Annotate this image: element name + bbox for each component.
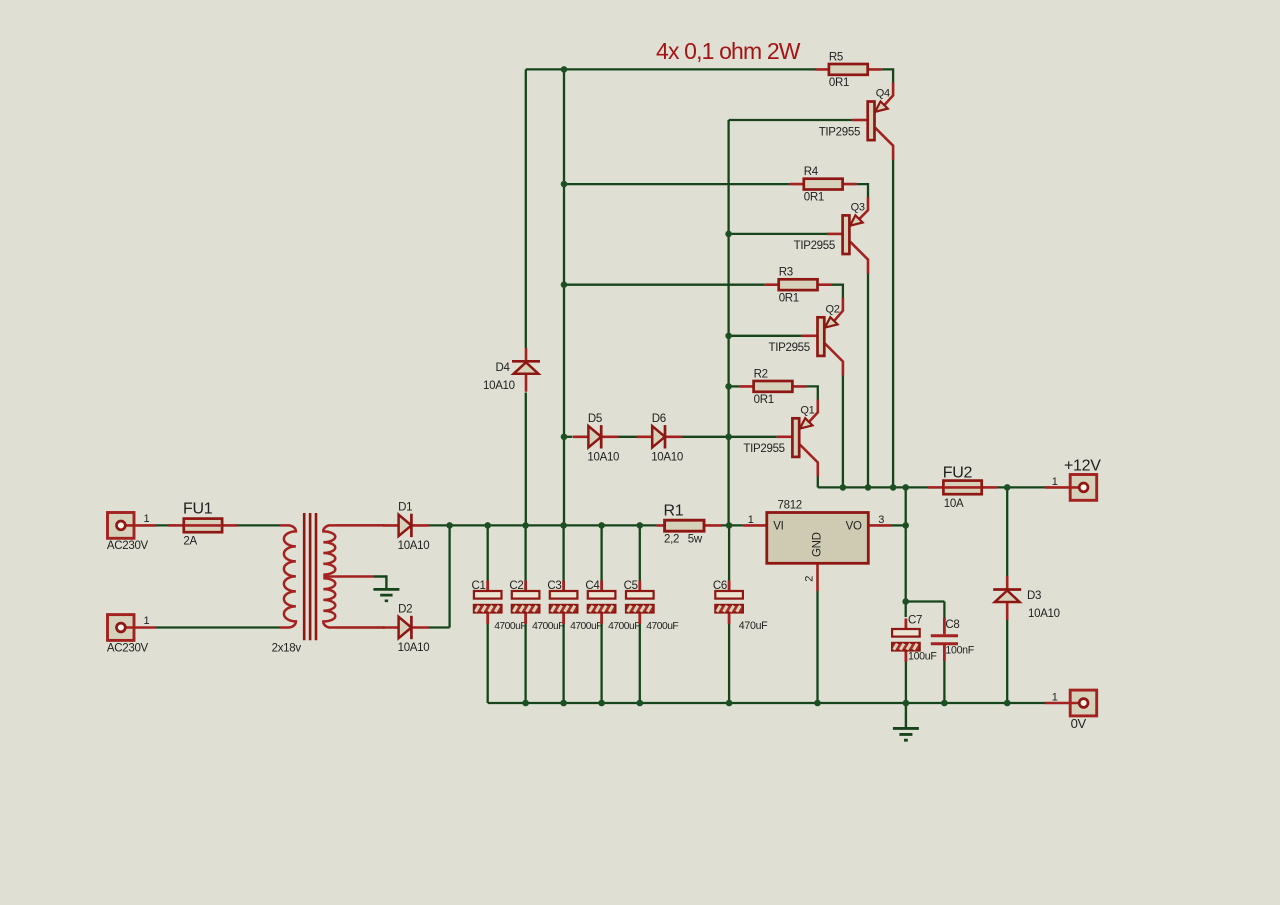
diode D6 10A10 xyxy=(637,425,683,448)
wire VO junction riser xyxy=(905,487,907,601)
resistor R5 0R1 xyxy=(815,64,882,75)
svg-text:C8: C8 xyxy=(945,619,959,631)
wire R3 row xyxy=(564,284,765,286)
svg-text:10A: 10A xyxy=(944,498,964,510)
svg-text:+12V: +12V xyxy=(1064,458,1101,475)
svg-text:VI: VI xyxy=(773,521,783,533)
wire AC line2 terminal to transformer xyxy=(156,626,280,628)
svg-text:1: 1 xyxy=(144,615,150,627)
wire C8 top drop xyxy=(943,602,945,619)
transistor Q1 TIP2955 xyxy=(777,418,818,476)
node +12V rail / Q3 xyxy=(865,484,872,491)
svg-text:10A10: 10A10 xyxy=(398,540,430,552)
svg-text:4700uF: 4700uF xyxy=(532,621,564,632)
wire R4 row xyxy=(564,183,790,185)
wire base bus vertical x=728.6 xyxy=(727,120,729,525)
svg-text:C2: C2 xyxy=(509,580,523,592)
wire AC line1 terminal to fuse xyxy=(156,524,177,526)
svg-text:R5: R5 xyxy=(829,51,843,63)
svg-text:10A10: 10A10 xyxy=(398,642,430,654)
node VO junction xyxy=(902,522,909,529)
svg-text:Q1: Q1 xyxy=(800,404,814,416)
svg-text:D2: D2 xyxy=(398,604,412,616)
node bus / C1 xyxy=(484,522,491,529)
wire C2 riser xyxy=(524,525,526,703)
svg-text:10A10: 10A10 xyxy=(587,451,619,463)
wire Q4 collector drop xyxy=(892,159,894,488)
svg-text:1: 1 xyxy=(144,513,150,525)
svg-text:R4: R4 xyxy=(804,166,819,178)
node 0V rail / C8 xyxy=(941,700,948,707)
node 0V rail / C3 xyxy=(560,700,567,707)
node input bus / R4 xyxy=(561,181,568,188)
diode D2 10A10 xyxy=(383,616,429,639)
svg-text:4700uF: 4700uF xyxy=(494,621,526,632)
wire C3 riser xyxy=(562,525,564,703)
svg-text:0R1: 0R1 xyxy=(829,77,849,89)
node 0V rail / C2 xyxy=(522,700,529,707)
node 0V rail / C5 xyxy=(637,700,644,707)
wire FU2 to terminal xyxy=(997,486,1050,488)
diode D1 10A10 xyxy=(383,514,429,537)
terminal +12V output xyxy=(1045,475,1097,501)
wire R2 to Q1 emitter corner xyxy=(806,386,817,400)
svg-text:GND: GND xyxy=(812,532,824,557)
svg-text:0R1: 0R1 xyxy=(754,394,774,406)
fuse FU1 2A xyxy=(168,519,238,533)
svg-text:C4: C4 xyxy=(585,580,600,592)
wire D6 to base bus xyxy=(681,436,777,438)
svg-text:AC230V: AC230V xyxy=(107,642,149,654)
ground (transformer centre tap) xyxy=(373,577,399,601)
regulator U1 7812 xyxy=(743,513,892,592)
node top rail / input riser xyxy=(561,66,568,73)
node base bus / Q3 base xyxy=(725,231,732,238)
wire C1 riser xyxy=(487,525,489,703)
svg-text:1: 1 xyxy=(1052,692,1058,704)
Q2 emitter pin xyxy=(834,298,843,322)
wire VO to junction xyxy=(892,524,906,526)
wire D2 to riser xyxy=(429,626,450,628)
node 0V rail / C7-ground xyxy=(903,700,910,707)
svg-text:FU1: FU1 xyxy=(183,501,213,518)
svg-text:0R1: 0R1 xyxy=(804,192,824,204)
capacitor C7 100uF xyxy=(892,619,920,662)
svg-text:10A10: 10A10 xyxy=(1028,608,1060,620)
node bus / D1-D2 xyxy=(446,522,453,529)
node bus / C4 xyxy=(598,522,605,529)
transformer TR1 2x18v xyxy=(280,513,385,640)
svg-text:7812: 7812 xyxy=(778,500,802,512)
node bus / C5 xyxy=(637,522,644,529)
wire D1 to bus xyxy=(429,524,450,526)
svg-text:3: 3 xyxy=(878,514,884,526)
capacitor C6 470uF xyxy=(715,581,743,624)
node base bus / Q2 base xyxy=(725,333,732,340)
svg-text:4x 0,1 ohm 2W: 4x 0,1 ohm 2W xyxy=(656,38,801,64)
wire GND pin drop to rail xyxy=(816,591,818,703)
wire main bus xyxy=(450,524,657,526)
node C7-C8 junction xyxy=(902,598,909,605)
capacitor C8 100nF xyxy=(931,618,958,661)
wire transformer to D1 xyxy=(336,524,385,526)
svg-text:1: 1 xyxy=(1052,476,1058,488)
svg-text:2A: 2A xyxy=(183,536,197,548)
capacitor C3 4700uF xyxy=(550,581,578,624)
diode D3 10A10 xyxy=(993,576,1021,620)
transistor Q2 TIP2955 xyxy=(802,317,843,375)
capacitor C4 4700uF xyxy=(588,581,616,624)
node 0V rail / C6 xyxy=(726,700,733,707)
wire vertical D4 branch x=526 xyxy=(525,69,527,348)
Q4 emitter pin xyxy=(884,82,893,105)
svg-text:VO: VO xyxy=(846,521,862,533)
wire Q2 collector drop xyxy=(842,375,844,488)
wire D3 top drop xyxy=(1006,487,1008,576)
svg-text:R2: R2 xyxy=(754,368,768,380)
svg-text:R1: R1 xyxy=(664,503,684,520)
diode D5 10A10 xyxy=(573,425,619,448)
node +12V rail / Q2 xyxy=(840,484,847,491)
wire fuse to transformer xyxy=(235,524,280,526)
resistor R3 0R1 xyxy=(765,279,832,290)
svg-text:C6: C6 xyxy=(713,580,727,592)
node base bus / D6-Q1 base xyxy=(725,434,732,441)
node bus / C2-D4 xyxy=(522,522,529,529)
wire vertical input bus x=564 xyxy=(563,69,565,436)
resistor R2 0R1 xyxy=(740,381,807,392)
node +12V rail / Q4 xyxy=(890,484,897,491)
transistor Q3 TIP2955 xyxy=(827,215,868,273)
wire vertical D4 to bus xyxy=(525,393,527,526)
svg-text:C1: C1 xyxy=(472,580,486,592)
transistor Q4 TIP2955 xyxy=(852,101,893,159)
node +12V rail / D3 xyxy=(1004,484,1011,491)
svg-text:D1: D1 xyxy=(398,501,412,513)
wire D2 riser x=449.6 xyxy=(448,525,450,627)
svg-text:1: 1 xyxy=(748,514,754,526)
wire Q3 base row xyxy=(729,233,827,235)
svg-text:470uF: 470uF xyxy=(739,620,768,632)
svg-text:C7: C7 xyxy=(908,615,922,627)
wire C7 bottom drop xyxy=(905,660,907,703)
wire Q4 base row xyxy=(729,119,853,121)
wire C7-C8 top row xyxy=(906,600,945,602)
svg-text:2: 2 xyxy=(803,576,815,582)
svg-text:TIP2955: TIP2955 xyxy=(743,443,784,455)
wire D5-D6 link xyxy=(617,436,641,438)
terminal J1 AC230V (line 1) xyxy=(108,513,157,539)
node 0V rail / GND pin xyxy=(814,700,821,707)
wire +12V rail xyxy=(818,486,928,488)
node input bus / R3 xyxy=(561,281,568,288)
svg-text:100uF: 100uF xyxy=(908,651,937,663)
wire C4 riser xyxy=(600,525,602,703)
svg-text:Q4: Q4 xyxy=(876,88,890,100)
resistor R1 2,2 5w xyxy=(656,520,722,531)
wire C8 bottom drop xyxy=(943,661,945,703)
svg-text:D6: D6 xyxy=(652,413,666,425)
node 0V rail / C4 xyxy=(598,700,605,707)
wire transformer to D2 xyxy=(336,626,385,628)
wire top rail to R5 xyxy=(526,68,816,70)
wire R5 to Q4 emitter corner xyxy=(882,69,893,83)
capacitor C2 4700uF xyxy=(512,581,540,624)
wire D3 bottom drop xyxy=(1006,619,1008,703)
svg-text:100nF: 100nF xyxy=(945,645,974,657)
ground (0V rail) xyxy=(893,703,919,740)
wire bottom 0V rail xyxy=(488,702,1045,704)
wire Q3 collector drop xyxy=(867,273,869,488)
svg-text:10A10: 10A10 xyxy=(651,451,683,463)
svg-text:R3: R3 xyxy=(779,267,793,279)
wire Q2 base row xyxy=(729,335,802,337)
wire Q1 collector drop xyxy=(817,475,819,487)
svg-text:4700uF: 4700uF xyxy=(570,621,602,632)
svg-text:2x18v: 2x18v xyxy=(272,643,302,655)
wire vertical input bus to main bus xyxy=(563,437,565,526)
svg-text:TIP2955: TIP2955 xyxy=(794,240,835,252)
node input bus / D5 xyxy=(561,434,568,441)
node base bus / R2 xyxy=(725,383,732,390)
svg-text:D5: D5 xyxy=(588,413,602,425)
svg-text:C5: C5 xyxy=(624,580,638,592)
svg-text:Q2: Q2 xyxy=(826,303,840,315)
svg-text:FU2: FU2 xyxy=(943,465,973,482)
wire R1 to VI junction xyxy=(722,524,743,526)
wire C7 top link xyxy=(905,602,907,618)
wire R4 to Q3 emitter corner xyxy=(857,184,868,198)
svg-text:TIP2955: TIP2955 xyxy=(819,126,860,138)
wire C5 riser xyxy=(639,525,641,703)
svg-text:D4: D4 xyxy=(496,362,511,374)
svg-text:4700uF: 4700uF xyxy=(646,621,678,632)
diode D4 10A10 xyxy=(512,348,540,392)
svg-text:0V: 0V xyxy=(1071,716,1087,731)
node 0V rail / D3 xyxy=(1004,700,1011,707)
fuse FU2 10A xyxy=(928,481,998,495)
capacitor C1 4700uF xyxy=(474,581,502,624)
wire C6 riser xyxy=(728,525,730,703)
svg-text:AC230V: AC230V xyxy=(107,540,149,552)
node bus / C6-base bus-R1 xyxy=(726,522,733,529)
Q3 emitter pin xyxy=(859,197,868,219)
svg-text:D3: D3 xyxy=(1027,590,1041,602)
svg-text:0R1: 0R1 xyxy=(779,292,799,304)
wire R3 to Q2 emitter corner xyxy=(832,285,843,299)
wire R2 row xyxy=(729,385,740,387)
svg-text:2,2 5w: 2,2 5w xyxy=(664,533,703,545)
svg-text:Q3: Q3 xyxy=(851,201,865,213)
wire D5 anode stub xyxy=(564,436,572,438)
svg-text:C3: C3 xyxy=(547,580,561,592)
capacitor C5 4700uF xyxy=(626,581,654,624)
resistor R4 0R1 xyxy=(790,179,857,190)
node bus / C3 xyxy=(560,522,567,529)
terminal 0V output xyxy=(1045,690,1097,716)
terminal J2 AC230V (line 2) xyxy=(108,615,157,641)
svg-text:10A10: 10A10 xyxy=(483,380,515,392)
svg-text:4700uF: 4700uF xyxy=(608,621,640,632)
Q1 emitter pin xyxy=(809,399,818,422)
node +12V rail / VO riser xyxy=(902,484,909,491)
svg-text:TIP2955: TIP2955 xyxy=(769,342,810,354)
